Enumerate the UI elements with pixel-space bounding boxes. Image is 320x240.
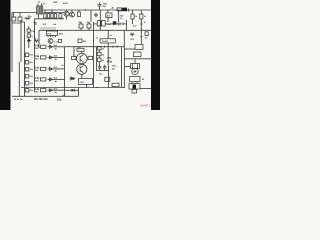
wire: row5 out bbox=[53, 89, 65, 91]
svg-text:ref: ref bbox=[110, 34, 113, 37]
right page edge black bar bbox=[151, 0, 160, 110]
resistor R15 bbox=[72, 56, 77, 59]
wire: Q10 to relay bbox=[81, 74, 83, 78]
capacitor C13 ladder box6 bbox=[25, 89, 29, 93]
resistor R17 bbox=[98, 47, 102, 50]
regulator VR1 bbox=[130, 77, 141, 82]
diode D4 bbox=[55, 13, 57, 14]
diode D1 bbox=[44, 10, 46, 14]
connector J1 solid bbox=[122, 8, 127, 12]
wire: rail x19.3 bbox=[18, 62, 20, 96]
capacitor C10 ladder box1 bbox=[25, 53, 29, 57]
wire: bottom second line bbox=[12, 95, 79, 97]
transistor Q8 arrow bbox=[48, 89, 53, 92]
meter M1 bbox=[132, 68, 138, 74]
bridge B1 bbox=[131, 64, 140, 69]
wire: row4 out bbox=[53, 78, 65, 80]
ladder stubs bbox=[24, 55, 27, 90]
IC U1 bbox=[46, 31, 57, 35]
wire: rail x96.5 bbox=[96, 47, 98, 71]
wire: y66.5 left bbox=[124, 66, 130, 68]
capacitor C12 ladder box5 bbox=[25, 82, 29, 86]
wire: relay to bottom bus bbox=[86, 85, 88, 88]
wire: drop x118.6 bbox=[118, 10, 120, 22]
resistor R14 bbox=[77, 48, 84, 51]
transistor Q5 arrow bbox=[48, 56, 53, 59]
wire: bottom bus bbox=[21, 87, 124, 89]
capacitor C16 bbox=[59, 39, 62, 42]
resistor R2 on bus bbox=[117, 8, 121, 11]
resistor R24 bbox=[145, 32, 148, 36]
svg-text:14a: 14a bbox=[35, 67, 40, 70]
transformer T1 secondary bbox=[40, 6, 43, 14]
resistor R20 bbox=[112, 83, 119, 86]
svg-text:25v: 25v bbox=[27, 16, 32, 19]
capacitor C8 bbox=[98, 65, 101, 71]
diode D2 bbox=[48, 13, 50, 14]
capacitor C2b bbox=[94, 13, 98, 18]
wire: rail x24.5 bbox=[24, 22, 26, 96]
svg-text:TL431: TL431 bbox=[102, 40, 109, 43]
wire: rectifier lower bus bbox=[35, 17, 65, 20]
svg-text:100u: 100u bbox=[112, 66, 117, 68]
left page edge black bar bbox=[0, 0, 11, 110]
capacitor C2 bbox=[59, 13, 61, 14]
transistor Q2 bbox=[70, 12, 75, 17]
wire: J2 to right bbox=[140, 88, 151, 90]
resistor R22 ladder box3 bbox=[25, 68, 29, 72]
label dark bbox=[113, 21, 117, 24]
transformer T1 core lines bbox=[38, 7, 42, 14]
node A junction bbox=[28, 18, 30, 20]
transistor Q10 bbox=[77, 64, 87, 74]
resistor R23 ladder box4 bbox=[25, 75, 29, 79]
wire: enclosure top bbox=[39, 29, 151, 31]
wire: right y49 bbox=[124, 48, 135, 50]
svg-text:140-420-42n: 140-420-42n bbox=[34, 98, 49, 101]
wire: rows rail bbox=[34, 19, 36, 92]
wire: enclosure left bbox=[38, 30, 40, 48]
resistor R18 bbox=[98, 52, 102, 55]
svg-text:TR 9v 1A: TR 9v 1A bbox=[14, 98, 23, 101]
node ticks mid bbox=[105, 46, 118, 48]
plug P1 leads bbox=[14, 13, 21, 18]
transistor Q3 bbox=[48, 39, 53, 44]
transistor Q6 arrow bbox=[48, 67, 53, 70]
relay RL1 bbox=[79, 79, 93, 85]
diode D3 bbox=[51, 10, 53, 14]
resistor R3 bbox=[107, 10, 109, 13]
wire: Q9 top lead bbox=[81, 51, 83, 53]
wire: chain stem top bbox=[134, 59, 136, 64]
resistor R16 bbox=[88, 56, 93, 59]
resistor R6 bbox=[28, 26, 30, 29]
wire: caps feed bbox=[94, 23, 117, 25]
diode D5 bbox=[70, 77, 76, 80]
wire: tie y22 bbox=[12, 22, 25, 23]
wire: row1 out bbox=[53, 46, 65, 48]
capacitor C11 ladder box2 bbox=[25, 61, 29, 65]
node B junction bbox=[85, 9, 86, 10]
capacitor C9 bbox=[103, 65, 106, 71]
shaded strip bbox=[40, 27, 56, 30]
resistor R2a bbox=[78, 12, 81, 17]
node tick bbox=[128, 9, 130, 12]
fuse F1 bbox=[18, 17, 22, 21]
wire: T1 leads bbox=[38, 3, 44, 18]
node corner mark bbox=[34, 23, 37, 26]
svg-text:14a: 14a bbox=[35, 44, 40, 47]
wire: drop x100.3 bbox=[99, 10, 101, 30]
wire: left rail bbox=[11, 13, 13, 73]
capacitor C6 bbox=[97, 21, 101, 26]
wire: rail x121.5 bbox=[121, 47, 123, 88]
wire: C4 C5 leads bbox=[81, 22, 89, 30]
capacitor C3 bbox=[27, 34, 30, 37]
resistor R5 bbox=[140, 10, 142, 14]
node ticks x141 bbox=[140, 24, 142, 37]
wire: rail x93.5 bbox=[93, 22, 95, 88]
svg-text:B.B.: B.B. bbox=[57, 99, 62, 102]
resistor R9 bbox=[41, 45, 46, 48]
resistor R12 bbox=[41, 78, 46, 81]
wire: row2 out bbox=[53, 56, 65, 58]
svg-text:eewb.c: eewb.c bbox=[141, 104, 152, 108]
wire: top bus bbox=[43, 9, 151, 11]
connector J2 bbox=[129, 84, 140, 90]
svg-text:4x1N: 4x1N bbox=[63, 2, 68, 5]
diode D6 bbox=[65, 89, 79, 91]
wire: rail x124.3 bbox=[123, 30, 125, 87]
wire: drop x74 bbox=[73, 47, 75, 58]
terminal TB1 bbox=[132, 90, 137, 94]
transistor Q9 bbox=[77, 53, 88, 64]
capacitor C4 bbox=[79, 24, 83, 28]
wire: secondary bus bbox=[44, 12, 65, 14]
wire: drop x91 bbox=[90, 10, 92, 22]
transformer T1 primary bbox=[37, 6, 40, 14]
svg-text:470n: 470n bbox=[107, 61, 113, 64]
transistor Q7 arrow bbox=[48, 78, 53, 81]
capacitor C1 bbox=[99, 3, 101, 5]
wire: row3 out bbox=[53, 68, 65, 70]
capacitor C7b bbox=[117, 22, 127, 25]
svg-text:14a: 14a bbox=[35, 55, 40, 58]
wire: stub x126.4 bbox=[125, 20, 127, 30]
wire: mains input line bbox=[12, 12, 37, 14]
resistor R4 bbox=[132, 10, 134, 14]
wire: x78.5 drop bbox=[78, 88, 80, 97]
resistor R11 bbox=[41, 67, 46, 70]
wire: rows collector rail bbox=[64, 47, 66, 97]
resistor R21 bbox=[134, 52, 142, 57]
transistor Q1 bbox=[64, 11, 69, 16]
wire: Q1 Q2 leads bbox=[67, 10, 73, 20]
resistor R7b bbox=[78, 39, 82, 43]
resistor R7 bbox=[34, 40, 38, 42]
resistor R13 bbox=[41, 89, 46, 92]
wire: U2 leads bbox=[107, 30, 109, 66]
capacitor C7 bbox=[102, 21, 106, 26]
junction dots rail bbox=[24, 54, 25, 55]
svg-text:1w: 1w bbox=[120, 18, 123, 20]
capacitor C5 bbox=[87, 24, 91, 28]
capacitor C14 bbox=[105, 77, 110, 81]
transistor Q4 arrow bbox=[48, 45, 53, 48]
wire: y70.5 bbox=[96, 70, 109, 72]
resistor R1 bbox=[25, 18, 29, 20]
diode D8 box bbox=[135, 45, 143, 50]
wire: mid horizontal bbox=[65, 46, 125, 48]
IC U1 pins bbox=[48, 35, 56, 37]
resistor R8 bbox=[130, 33, 134, 35]
wire: right y58.8 bbox=[124, 58, 151, 60]
switch S1 bbox=[12, 17, 16, 21]
junction dots bus bbox=[96, 87, 97, 88]
wire: rail x21 bbox=[20, 20, 22, 62]
svg-text:14a: 14a bbox=[35, 88, 40, 91]
svg-text:14a: 14a bbox=[35, 77, 40, 80]
wire: rail x108.5 bbox=[108, 66, 110, 88]
diode D7 arrow bbox=[27, 39, 31, 42]
wire: rail x99 bbox=[98, 50, 100, 66]
resistor R10 bbox=[41, 56, 46, 59]
resistor R19 bbox=[98, 58, 102, 61]
IC U2 bbox=[100, 39, 116, 43]
